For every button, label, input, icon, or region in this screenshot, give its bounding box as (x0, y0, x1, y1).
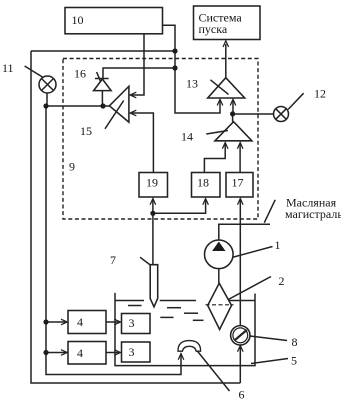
svg-text:12: 12 (314, 87, 326, 101)
svg-text:2: 2 (279, 274, 285, 288)
svg-text:9: 9 (69, 160, 75, 174)
svg-text:19: 19 (146, 175, 158, 189)
svg-text:7: 7 (110, 253, 116, 267)
svg-text:3: 3 (129, 316, 135, 330)
svg-text:3: 3 (129, 345, 135, 359)
svg-text:8: 8 (292, 335, 298, 349)
svg-text:4: 4 (77, 315, 83, 329)
svg-text:1: 1 (275, 238, 281, 252)
svg-text:16: 16 (74, 67, 86, 81)
svg-text:17: 17 (232, 175, 244, 189)
svg-text:14: 14 (181, 130, 193, 144)
svg-text:13: 13 (186, 77, 198, 91)
svg-text:4: 4 (77, 346, 83, 360)
svg-text:6: 6 (239, 388, 245, 400)
svg-text:магистраль: магистраль (285, 207, 341, 221)
svg-text:18: 18 (197, 175, 209, 189)
svg-text:15: 15 (80, 124, 92, 138)
svg-text:10: 10 (72, 13, 84, 27)
svg-text:11: 11 (2, 61, 14, 75)
svg-text:пуска: пуска (199, 22, 228, 36)
svg-text:5: 5 (291, 354, 297, 368)
